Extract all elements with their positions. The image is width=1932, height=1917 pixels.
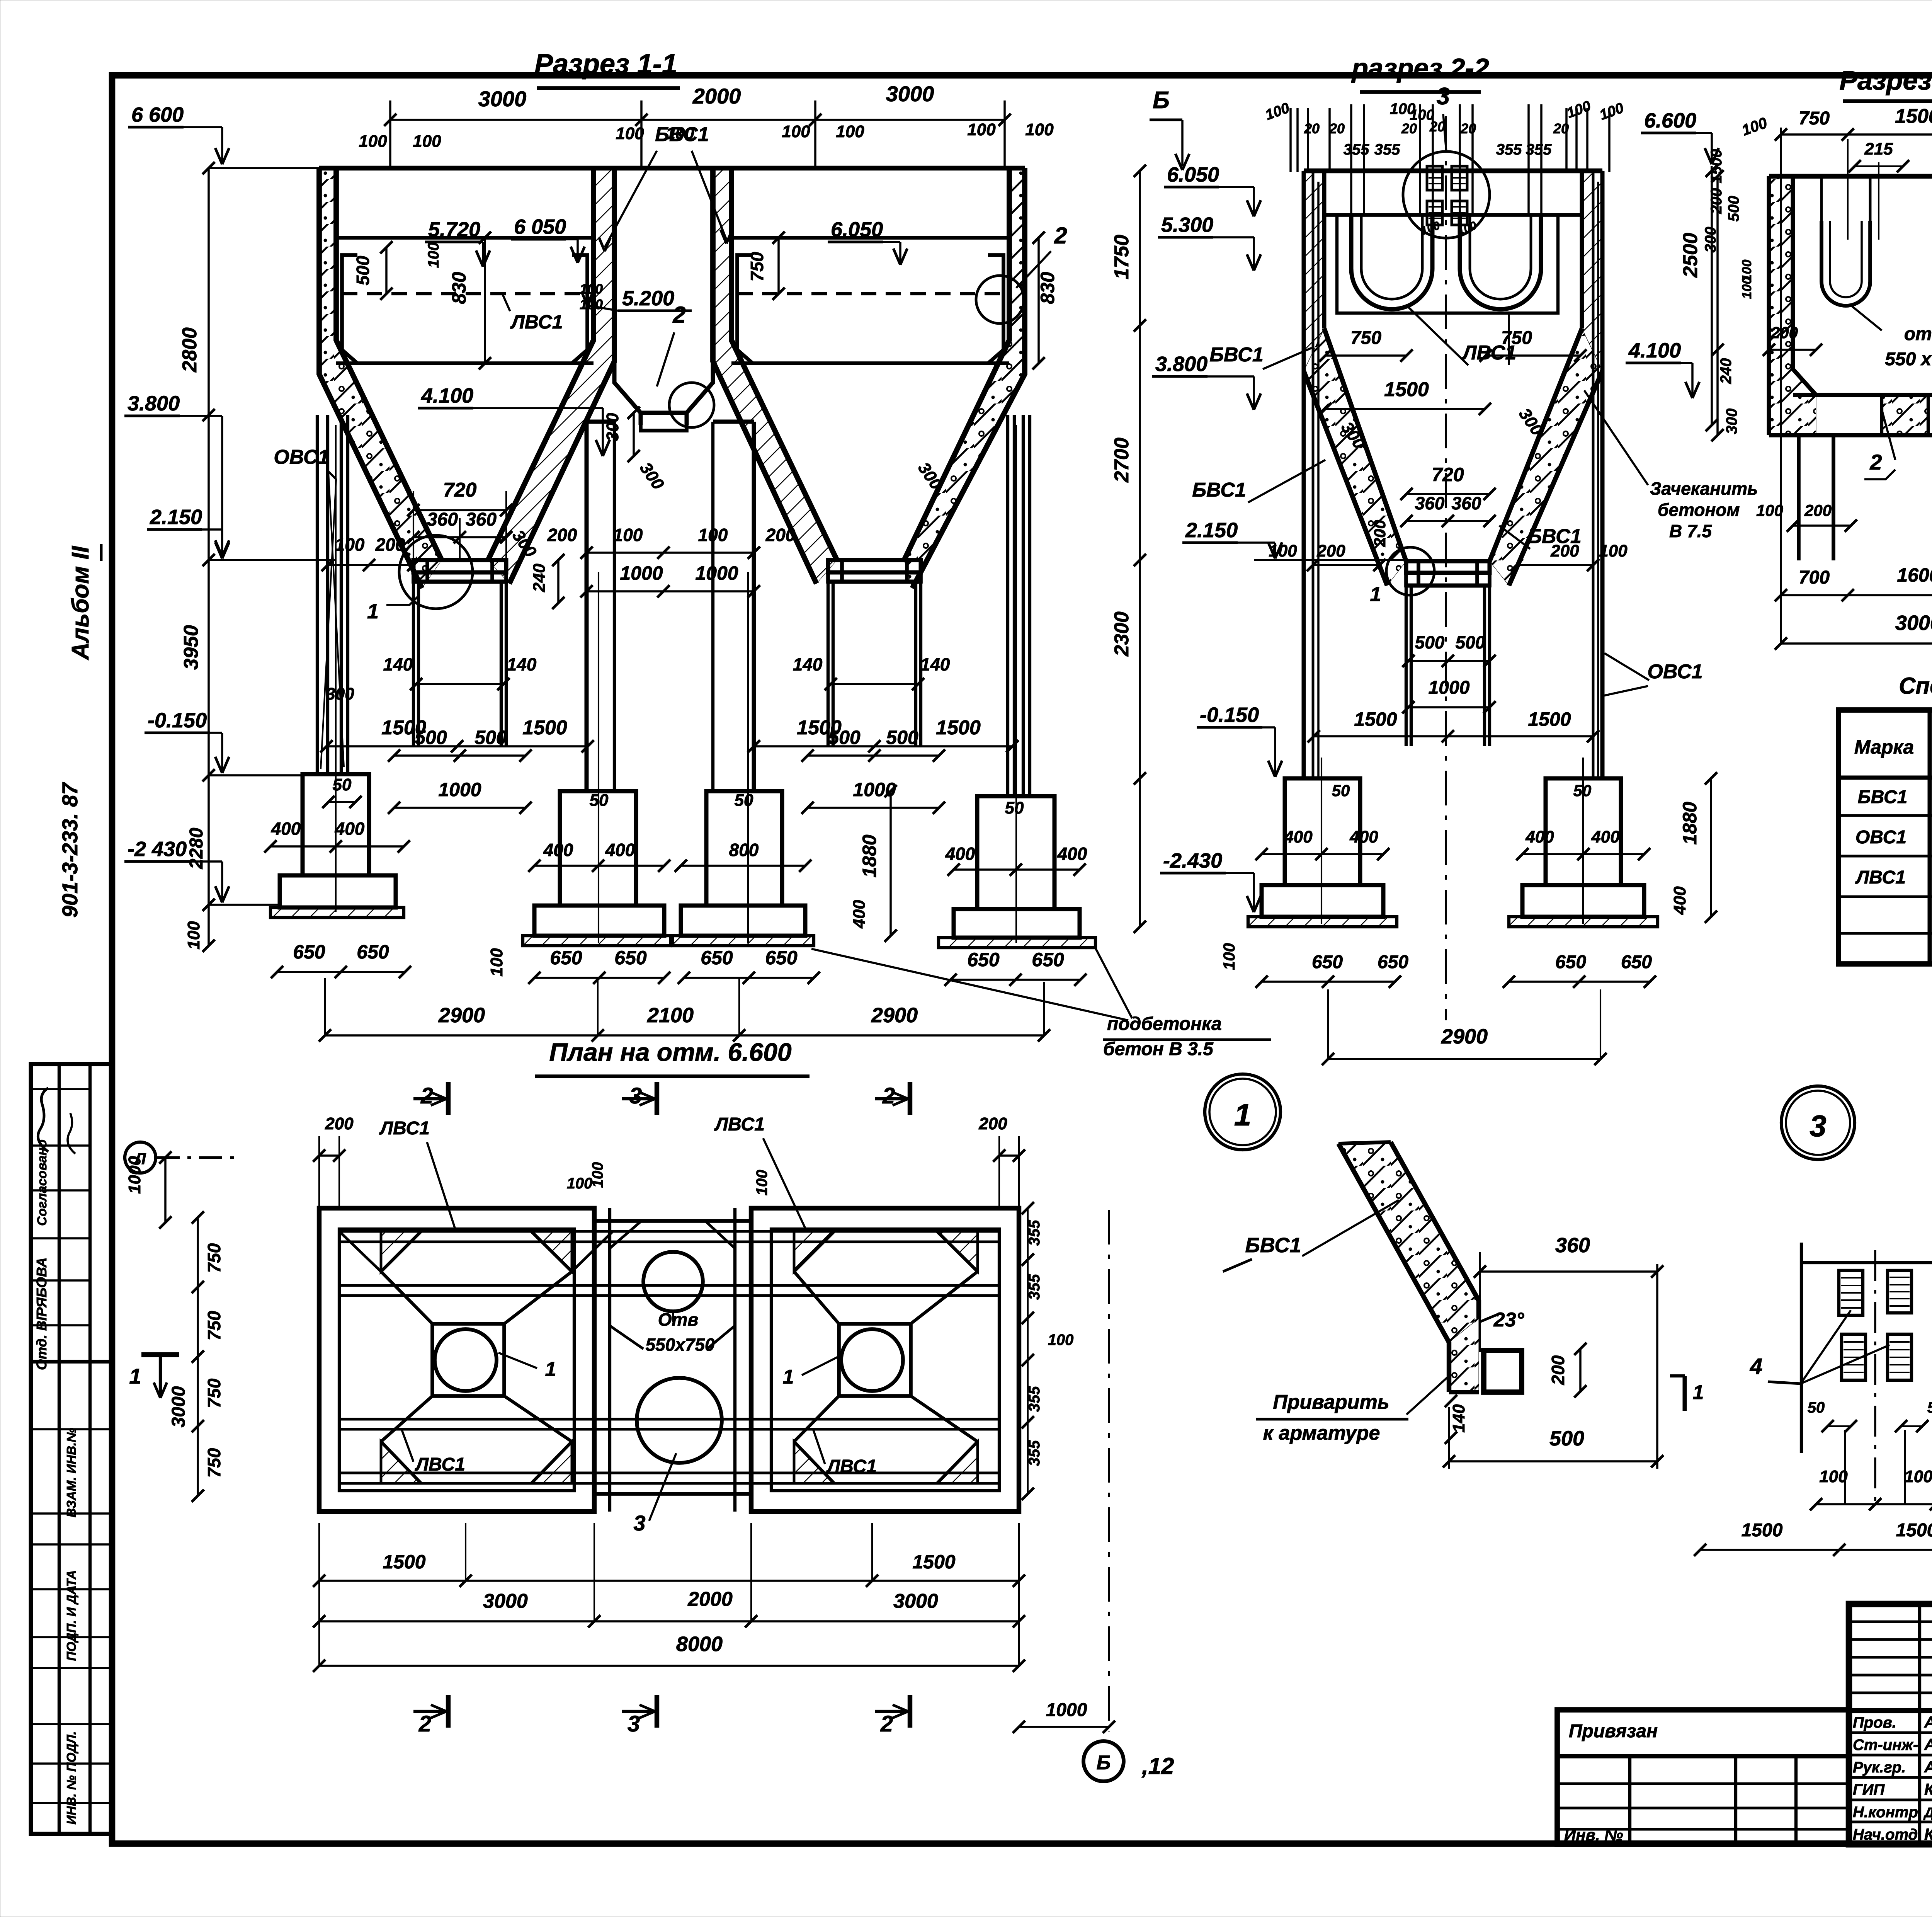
svg-text:1: 1 (1693, 1381, 1704, 1404)
svg-text:830: 830 (448, 272, 470, 304)
svg-text:1500: 1500 (1895, 105, 1932, 128)
svg-text:3950: 3950 (180, 625, 202, 670)
svg-text:ЛВС1: ЛВС1 (1855, 867, 1906, 888)
plan right pod (751, 1208, 1019, 1512)
svg-text:100: 100 (1048, 1331, 1074, 1348)
svg-text:В 7.5: В 7.5 (1669, 521, 1712, 541)
svg-text:20: 20 (1401, 121, 1417, 136)
svg-text:ЛВС1: ЛВС1 (714, 1114, 765, 1135)
svg-text:БВС1: БВС1 (1192, 479, 1246, 501)
svg-text:500: 500 (886, 727, 918, 748)
svg-text:140: 140 (507, 654, 537, 674)
svg-text:1: 1 (783, 1366, 794, 1388)
section 1-1 top line (319, 166, 1025, 170)
svg-text:Пров.: Пров. (1853, 1714, 1896, 1731)
outlet legs right tank (827, 582, 830, 746)
svg-text:1000: 1000 (1429, 678, 1470, 698)
svg-text:20: 20 (1460, 121, 1476, 136)
svg-text:100: 100 (589, 1162, 606, 1188)
svg-text:Спецификация элементов на од: Спецификация элементов на один вихревой … (1899, 673, 1932, 699)
svg-text:1: 1 (1234, 1098, 1252, 1132)
svg-text:1500: 1500 (1742, 1520, 1783, 1541)
3-3 top line (1769, 174, 1932, 179)
svg-text:100: 100 (1599, 541, 1628, 560)
svg-text:200: 200 (1548, 1355, 1568, 1385)
svg-text:1500: 1500 (1384, 378, 1429, 401)
svg-text:500: 500 (353, 255, 373, 285)
footing axis lines 2-2 (1321, 758, 1322, 924)
svg-text:ОВС1: ОВС1 (1855, 827, 1906, 848)
svg-text:Зачеканить: Зачеканить (1650, 478, 1758, 499)
svg-text:Антонова: Антонова (1924, 1713, 1932, 1731)
svg-text:400: 400 (1057, 844, 1087, 864)
svg-text:6.050: 6.050 (831, 218, 883, 241)
svg-text:5.200: 5.200 (622, 287, 674, 310)
svg-text:Л: Л (134, 1149, 146, 1168)
svg-text:50: 50 (1005, 798, 1024, 817)
svg-text:-2.430: -2.430 (1163, 849, 1222, 872)
svg-text:360: 360 (427, 509, 458, 530)
svg-text:1500: 1500 (522, 717, 567, 739)
svg-text:1500: 1500 (383, 1551, 425, 1573)
svg-text:2: 2 (1054, 223, 1067, 249)
right tank lotok lines (731, 236, 1009, 240)
svg-text:100: 100 (413, 132, 441, 151)
svg-text:Привязан: Привязан (1569, 1721, 1658, 1742)
svg-text:-0.150: -0.150 (148, 709, 207, 732)
svg-text:650: 650 (1621, 952, 1652, 972)
svg-text:План на отм. 6.600: План на отм. 6.600 (549, 1038, 791, 1066)
svg-text:Альбом II: Альбом II (67, 545, 94, 661)
svg-text:550 х 750: 550 х 750 (1885, 349, 1932, 369)
svg-text:355: 355 (1496, 141, 1522, 158)
title block (1849, 1604, 1932, 1844)
svg-text:200: 200 (325, 1114, 354, 1133)
svg-text:100: 100 (753, 1170, 770, 1196)
svg-text:300: 300 (603, 413, 622, 441)
svg-text:2000: 2000 (692, 84, 741, 108)
svg-text:2: 2 (880, 1711, 893, 1737)
svg-text:3.800: 3.800 (1155, 352, 1207, 376)
plan middle section (594, 1219, 751, 1223)
svg-text:2: 2 (418, 1711, 431, 1737)
svg-text:100: 100 (613, 525, 643, 545)
svg-text:3: 3 (1437, 83, 1450, 110)
svg-text:400: 400 (1591, 827, 1620, 846)
2-2 outlet legs (1405, 586, 1408, 746)
svg-text:500: 500 (474, 727, 507, 748)
svg-text:100: 100 (335, 535, 365, 555)
svg-text:ЛВС1: ЛВС1 (510, 311, 563, 333)
svg-text:355: 355 (1344, 141, 1369, 158)
svg-text:1500: 1500 (912, 1551, 955, 1573)
svg-text:Н.контр.: Н.контр. (1853, 1804, 1922, 1821)
svg-text:Кузнецов: Кузнецов (1924, 1780, 1932, 1798)
svg-text:РЯБОВА: РЯБОВА (34, 1258, 49, 1317)
right tank outlet slab (828, 560, 921, 572)
svg-text:Данилевский: Данилевский (1923, 1805, 1932, 1820)
svg-text:ОВС1: ОВС1 (274, 446, 329, 468)
left tank mid-left wall (488, 168, 594, 560)
svg-text:650: 650 (1312, 952, 1343, 972)
svg-text:140: 140 (1449, 1404, 1468, 1433)
svg-text:200: 200 (978, 1114, 1007, 1133)
svg-text:к арматуре: к арматуре (1263, 1422, 1380, 1444)
svg-text:901-3-233. 87: 901-3-233. 87 (58, 782, 82, 918)
svg-text:1: 1 (129, 1364, 141, 1388)
svg-text:20: 20 (1329, 121, 1345, 136)
svg-text:360: 360 (1415, 493, 1445, 513)
right wall legs (1006, 415, 1009, 796)
svg-text:Разрез 1-1: Разрез 1-1 (534, 49, 677, 80)
svg-text:100: 100 (836, 122, 864, 141)
svg-text:6 600: 6 600 (131, 103, 184, 126)
svg-text:1750: 1750 (1111, 235, 1133, 279)
svg-text:23°: 23° (1493, 1309, 1525, 1331)
svg-text:20: 20 (1553, 121, 1569, 136)
svg-text:1880: 1880 (1679, 802, 1701, 844)
2-2 footings (1285, 778, 1360, 885)
svg-text:500: 500 (1725, 196, 1742, 222)
svg-text:ПОДП. И ДАТА: ПОДП. И ДАТА (64, 1570, 78, 1661)
svg-text:ВЗАМ. ИНВ.№: ВЗАМ. ИНВ.№ (64, 1428, 78, 1517)
svg-text:100: 100 (487, 948, 506, 977)
svg-text:100: 100 (1220, 943, 1238, 970)
svg-text:140: 140 (383, 654, 413, 674)
svg-text:100: 100 (359, 132, 387, 151)
svg-text:3: 3 (1810, 1109, 1826, 1143)
svg-text:360: 360 (1452, 493, 1481, 513)
svg-text:200: 200 (375, 535, 405, 555)
3-3 U channels (1821, 221, 1870, 306)
3-3 top dims (1781, 133, 1932, 136)
svg-text:50: 50 (1808, 1399, 1825, 1416)
left tank outlet slab (413, 560, 506, 572)
svg-text:355: 355 (1374, 141, 1400, 158)
svg-text:650: 650 (293, 941, 325, 963)
svg-text:240: 240 (1718, 358, 1735, 385)
svg-text:БВС1: БВС1 (1209, 344, 1264, 366)
svg-text:ГИП: ГИП (1853, 1781, 1885, 1798)
svg-text:1500: 1500 (1528, 708, 1571, 730)
central column (585, 422, 589, 791)
svg-text:4.100: 4.100 (1628, 339, 1681, 362)
svg-text:100: 100 (580, 296, 603, 312)
svg-text:2900: 2900 (1441, 1025, 1488, 1048)
svg-text:1: 1 (1370, 583, 1381, 606)
detail 1 circle (1205, 1074, 1281, 1150)
svg-text:3000: 3000 (886, 82, 934, 106)
svg-text:650: 650 (357, 941, 389, 963)
footing D (977, 796, 1054, 909)
plan outer outline (319, 1208, 594, 1512)
svg-text:,12: ,12 (1141, 1753, 1174, 1779)
svg-text:3000: 3000 (478, 87, 527, 111)
svg-text:650: 650 (550, 947, 582, 969)
svg-text:3: 3 (628, 1711, 640, 1737)
svg-text:6.050: 6.050 (1167, 163, 1219, 186)
svg-text:разрез 2-2: разрез 2-2 (1351, 53, 1489, 83)
svg-text:215: 215 (1864, 140, 1893, 158)
svg-text:650: 650 (765, 947, 798, 969)
left dim chain (207, 168, 210, 946)
left stamp table (31, 1064, 112, 1834)
svg-text:650: 650 (701, 947, 733, 969)
svg-text:ОВС1: ОВС1 (1647, 661, 1702, 683)
svg-text:2900: 2900 (438, 1004, 485, 1027)
svg-text:2100: 2100 (647, 1004, 694, 1027)
svg-text:ИНВ. № ПОДЛ.: ИНВ. № ПОДЛ. (64, 1731, 78, 1824)
svg-text:400: 400 (1284, 827, 1313, 846)
2-2 taper bands (1324, 329, 1406, 561)
footing C (706, 791, 782, 906)
3-3 left wall (1767, 176, 1771, 435)
svg-text:Антонова: Антонова (1924, 1758, 1932, 1776)
svg-text:240: 240 (530, 564, 549, 592)
svg-text:6 050: 6 050 (514, 215, 566, 238)
svg-text:400: 400 (1525, 827, 1554, 846)
svg-text:50: 50 (1927, 1399, 1932, 1416)
svg-text:750: 750 (204, 1448, 224, 1478)
svg-text:200: 200 (1371, 520, 1389, 547)
svg-text:100: 100 (967, 120, 996, 139)
2-2 center axis (1445, 116, 1447, 1020)
2-2 hanger verticals (1350, 104, 1352, 216)
svg-text:1500: 1500 (1896, 1520, 1932, 1541)
2-2 left dim chain (1139, 171, 1141, 927)
svg-text:400: 400 (1670, 886, 1689, 915)
svg-text:5.720: 5.720 (428, 218, 480, 241)
2-2 left wall column (1302, 171, 1306, 778)
2-2 U channel right (1460, 216, 1541, 309)
svg-text:1000: 1000 (438, 779, 481, 800)
svg-text:1500: 1500 (797, 717, 842, 739)
svg-text:2700: 2700 (1111, 438, 1133, 483)
detail circle 1 left outlet (399, 535, 473, 609)
svg-text:Отв: Отв (658, 1309, 698, 1330)
svg-text:500: 500 (1415, 632, 1445, 652)
svg-text:3000: 3000 (483, 1590, 528, 1612)
svg-text:400: 400 (850, 900, 869, 929)
svg-text:Красавин: Красавин (1924, 1825, 1932, 1843)
svg-text:8000: 8000 (676, 1633, 723, 1656)
svg-text:100: 100 (616, 124, 644, 143)
left part of title block (1557, 1710, 1849, 1844)
right pod details (794, 1231, 834, 1272)
svg-text:200: 200 (1708, 188, 1725, 215)
svg-text:700: 700 (1799, 567, 1830, 588)
svg-text:550х750: 550х750 (645, 1335, 714, 1355)
svg-text:отв.: отв. (1904, 324, 1932, 344)
detail 1 sloped band (1338, 1144, 1449, 1392)
svg-text:3.800: 3.800 (128, 392, 180, 415)
svg-text:100: 100 (1025, 120, 1054, 139)
svg-text:650: 650 (967, 949, 1000, 970)
svg-text:100: 100 (1269, 541, 1297, 560)
svg-text:-2 430: -2 430 (128, 838, 187, 861)
svg-text:750: 750 (1799, 108, 1830, 129)
svg-text:650: 650 (1378, 952, 1408, 972)
svg-text:20: 20 (1429, 119, 1445, 134)
svg-text:Разрез 3-3: Разрез 3-3 (1839, 65, 1932, 95)
right outer wall hatched (912, 168, 1025, 588)
svg-text:750: 750 (204, 1311, 224, 1340)
svg-text:355: 355 (1526, 141, 1552, 158)
svg-text:200: 200 (1316, 541, 1345, 560)
svg-text:3000: 3000 (1895, 611, 1932, 635)
svg-text:4.100: 4.100 (421, 384, 473, 407)
svg-text:100: 100 (1819, 1467, 1848, 1486)
svg-text:ЛВС1: ЛВС1 (826, 1456, 877, 1477)
svg-text:200: 200 (1550, 541, 1579, 560)
svg-text:2300: 2300 (1111, 611, 1133, 657)
svg-text:1: 1 (367, 600, 379, 623)
svg-text:750: 750 (747, 252, 767, 281)
svg-text:5.300: 5.300 (1161, 213, 1213, 237)
svg-text:20: 20 (1304, 121, 1320, 136)
central cell polygon (614, 361, 641, 425)
svg-text:2280: 2280 (186, 827, 207, 869)
svg-text:500: 500 (1456, 632, 1485, 652)
svg-text:Отд. ВГ: Отд. ВГ (34, 1311, 49, 1370)
svg-text:100: 100 (698, 525, 728, 545)
detail 1 trough attach (1484, 1350, 1522, 1392)
svg-text:4: 4 (1750, 1354, 1762, 1379)
svg-text:100: 100 (580, 281, 603, 297)
svg-text:650: 650 (1032, 949, 1064, 970)
footing A (303, 774, 369, 875)
svg-text:650: 650 (614, 947, 647, 969)
svg-text:830: 830 (1037, 272, 1058, 304)
svg-text:бетоном: бетоном (1658, 500, 1740, 520)
left wall hatched (319, 168, 422, 588)
svg-text:Б: Б (1097, 1752, 1111, 1774)
svg-text:750: 750 (1501, 328, 1532, 348)
svg-text:400: 400 (271, 819, 301, 839)
middle wall right strip (713, 168, 816, 584)
svg-text:2: 2 (1869, 450, 1882, 474)
svg-text:200: 200 (1770, 323, 1798, 342)
svg-text:Рук.гр.: Рук.гр. (1853, 1759, 1906, 1776)
lotok end brackets left tank (342, 255, 357, 363)
svg-text:2.150: 2.150 (150, 506, 202, 529)
outlet legs left tank (412, 582, 415, 746)
footing B (560, 791, 636, 906)
plan horizontal channel strips (339, 1230, 999, 1233)
svg-text:200: 200 (547, 525, 577, 545)
2-2 detail circle 3 (1403, 152, 1490, 238)
svg-text:200: 200 (1804, 501, 1832, 519)
svg-text:100: 100 (1904, 1467, 1932, 1486)
left pod corner hatch triangles (381, 1231, 421, 1272)
svg-text:бетон В 3.5: бетон В 3.5 (1103, 1039, 1214, 1059)
spec table (1838, 710, 1932, 964)
svg-text:140: 140 (920, 654, 950, 674)
svg-text:360: 360 (466, 509, 497, 530)
svg-text:ЛВС1: ЛВС1 (379, 1118, 430, 1139)
2-2 interior slab + recess (1324, 213, 1582, 217)
svg-text:500: 500 (1549, 1427, 1584, 1450)
svg-text:Б: Б (1153, 87, 1170, 114)
2-2 U channel left (1351, 216, 1432, 309)
svg-text:720: 720 (443, 479, 477, 501)
svg-text:100: 100 (1740, 277, 1754, 299)
svg-text:БВС1: БВС1 (1858, 787, 1908, 807)
svg-text:2900: 2900 (871, 1004, 918, 1027)
svg-text:1000: 1000 (695, 562, 738, 584)
2-2 top line (1304, 169, 1602, 173)
svg-text:2.150: 2.150 (1185, 519, 1238, 542)
svg-text:1000: 1000 (1046, 1700, 1087, 1720)
svg-text:50: 50 (1332, 781, 1350, 800)
svg-text:1: 1 (545, 1358, 556, 1381)
svg-text:650: 650 (1555, 952, 1586, 972)
2-2 outlet slab (1406, 561, 1490, 573)
svg-text:100: 100 (1756, 501, 1783, 519)
2-2 right wall column (1600, 171, 1605, 778)
svg-text:100: 100 (425, 242, 442, 268)
svg-text:400: 400 (605, 840, 635, 860)
svg-text:Ст-инж-: Ст-инж- (1853, 1737, 1918, 1754)
left pod octagon + square + circle (381, 1231, 421, 1272)
svg-text:подбетонка: подбетонка (1107, 1014, 1222, 1034)
svg-text:750: 750 (204, 1243, 224, 1273)
svg-text:400: 400 (335, 819, 365, 839)
svg-text:720: 720 (1432, 464, 1464, 485)
svg-text:БВС1: БВС1 (655, 123, 709, 146)
svg-text:200: 200 (765, 525, 796, 545)
svg-text:750: 750 (1350, 328, 1381, 348)
svg-text:Марка: Марка (1854, 736, 1914, 758)
svg-text:1880: 1880 (859, 834, 880, 877)
svg-text:Инв. №: Инв. № (1564, 1826, 1623, 1844)
svg-text:300: 300 (1723, 409, 1740, 434)
2-2 outlet detail circle (1386, 547, 1434, 595)
svg-text:750: 750 (204, 1378, 224, 1408)
svg-text:2000: 2000 (687, 1588, 733, 1611)
svg-text:Архипова: Архипова (1924, 1735, 1932, 1754)
svg-text:100: 100 (782, 122, 810, 141)
detail 3 circle (1781, 1086, 1855, 1159)
top dims 1-1 (390, 119, 1005, 121)
detail circle 2 at right slab end (976, 276, 1024, 323)
svg-text:140: 140 (793, 654, 823, 674)
svg-text:400: 400 (543, 840, 573, 860)
svg-text:2: 2 (672, 302, 685, 328)
svg-text:1000: 1000 (620, 562, 663, 584)
svg-text:БВС1: БВС1 (1245, 1234, 1301, 1257)
svg-text:3000: 3000 (168, 1386, 189, 1427)
svg-text:1600: 1600 (1897, 564, 1932, 586)
axis B circle bottom (1108, 1210, 1110, 1731)
plan axis 1 marker left (141, 1352, 179, 1357)
svg-text:ЛВС1: ЛВС1 (415, 1454, 465, 1475)
svg-text:100: 100 (184, 921, 203, 950)
svg-text:Нач.отд: Нач.отд (1853, 1826, 1918, 1843)
svg-text:-0.150: -0.150 (1200, 703, 1259, 727)
svg-text:400: 400 (945, 844, 975, 864)
svg-text:3: 3 (633, 1511, 645, 1535)
3-3 legs (1797, 435, 1801, 560)
footing axis lines 1-1 (335, 425, 337, 912)
left wall legs (316, 415, 319, 774)
3-3 floor slab (1793, 393, 1932, 397)
svg-text:6.600: 6.600 (1644, 109, 1696, 132)
svg-text:Приварить: Приварить (1273, 1391, 1389, 1413)
svg-text:100: 100 (567, 1175, 593, 1192)
svg-text:1500: 1500 (1354, 708, 1397, 730)
svg-text:360: 360 (1555, 1234, 1590, 1257)
